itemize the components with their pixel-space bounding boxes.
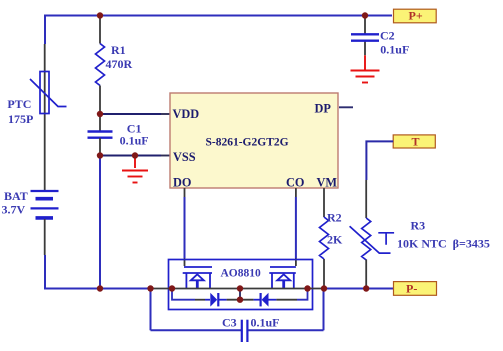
svg-text:0.1uF: 0.1uF [120,134,149,148]
svg-text:VDD: VDD [173,107,200,121]
diode D1 bar [217,293,219,306]
resistor R2 zigzag [320,217,329,259]
battery BAT plate 1 (long) [31,190,59,192]
pin DP stub (dark) [339,106,353,108]
svg-text:0.1uF: 0.1uF [380,43,409,57]
Q2 channel bar [269,272,296,274]
ground symbol at VSS (red) [122,156,148,183]
junction node rail at diode rail left [169,285,175,291]
svg-text:VSS: VSS [173,150,196,164]
capacitor C2 plate 1 [351,33,379,35]
Q2 gate bar [270,266,296,268]
wire C3 loop left riser [150,289,152,331]
capacitor C1 plate 1 [88,130,113,132]
svg-text:AO8810: AO8810 [221,268,262,280]
wire bottom rail middle (dark) [151,288,325,290]
wire VSS net horizontal [100,155,161,157]
wire DO vertical [184,188,186,197]
Q2 drain lead [271,273,273,289]
wire diode rail right corner [297,289,308,300]
resistor R1 bottom pin (dark) [99,86,101,115]
junction node rail center link top [237,285,243,291]
transistor pack AO8810 outline box [169,260,313,310]
Q2 bulk arrow [277,274,290,280]
battery BAT plate 2 (short thick) [36,197,54,201]
Q1 bulk stem [196,280,199,288]
diode D2 bar [260,293,262,306]
wire C3 loop bottom right [248,329,324,331]
Q1 drain lead [209,273,211,289]
junction node VDD [97,111,103,117]
thermistor R3 temperature T mark [378,233,394,245]
resistor R1 top pin (dark) [99,16,101,44]
diode D2 body [262,293,269,307]
capacitor C3 plate 1 [241,320,243,342]
junction node rail at diode rail right [304,285,310,291]
wire diode center link [239,289,241,300]
IC U1 S-8261-G2GT2G body [170,93,338,188]
svg-text:3.7V: 3.7V [2,203,26,217]
svg-text:175P: 175P [8,112,33,126]
Q2 source lead [293,273,295,289]
capacitor C1 bottom lead (dark) [99,138,101,156]
pin VSS stub (dark) [161,155,170,157]
capacitor C2 plate 2 [351,40,379,42]
junction node rail at C3 left [147,285,153,291]
Q1 source lead [185,273,187,289]
wire VSS column down to bottom rail [99,156,101,289]
junction node rail at R3 [363,285,369,291]
svg-text:BAT: BAT [4,189,28,203]
svg-text:R3: R3 [411,219,426,233]
wire C3 loop right riser [323,289,325,331]
Q1 channel bar [183,272,212,274]
svg-text:2K: 2K [327,233,343,247]
Q1 bulk arrow [191,274,204,280]
svg-text:470R: 470R [106,57,133,71]
thermistor R3 top pin (dark) [365,180,367,218]
resistor R2 bottom pin (dark) [323,259,325,289]
battery BAT plate 3 (long) [31,207,59,209]
wire VDD net horizontal [100,113,161,115]
wire diode rail right (dark) [276,299,297,301]
svg-text:R1: R1 [111,43,126,57]
svg-text:PTC: PTC [7,97,31,111]
diode D2 right stub [269,299,277,301]
wire bottom rail right (blue) [324,288,394,290]
Q1 gate bar [184,266,212,268]
junction node rail at VSS column [97,285,103,291]
svg-text:T: T [412,134,420,148]
ground symbol at C2 (red) [351,55,380,82]
svg-text:DP: DP [315,102,332,116]
wire C3 loop bottom left [151,329,242,331]
Q2 bulk stem [282,280,285,288]
svg-text:C3: C3 [222,316,237,330]
wire from T port to NTC column [366,141,393,180]
svg-text:CO: CO [286,176,304,190]
svg-text:C2: C2 [380,29,395,43]
wire VM vertical (dark) [323,188,325,217]
wire left column pin segment (dark) [44,44,46,190]
junction node top rail at R1 [97,12,103,18]
port P+ box [394,9,437,23]
diode D1 body [210,293,217,307]
wire diode rail middle (dark) [227,299,254,301]
port P- box [394,282,437,296]
port T box [393,135,435,148]
junction node rail at R2/C3 right [321,285,327,291]
svg-text:R2: R2 [327,211,342,225]
thermistor R3 zigzag [362,218,371,260]
wire bottom rail left (blue) [44,288,151,290]
wire top rail [45,15,392,17]
wire battery lower pin (dark) [44,219,46,255]
capacitor C2 leads (dark) [364,16,366,56]
thermistor R3 diagonal mark [350,226,391,253]
diode D2 left stub [254,299,260,301]
wire diode rail left corner [172,289,195,300]
capacitor C3 plate 2 [246,320,248,342]
junction node VSS left [97,152,103,158]
svg-text:P+: P+ [409,9,423,23]
transistor Q2 right MOSFET [269,267,296,289]
junction node diode rail center link bottom [237,297,243,303]
resistor R1 zigzag [96,44,105,86]
svg-text:S-8261-G2GT2G: S-8261-G2GT2G [206,137,289,149]
wire diode rail (dark segments) [195,299,205,301]
junction node top rail at C2 [362,12,368,18]
junction node VSS ground tap [132,152,138,158]
svg-text:P-: P- [406,282,417,296]
battery BAT plate 4 (short thick) [36,216,54,220]
capacitor C1 top lead (dark) [99,114,101,131]
transistor Q1 left MOSFET [183,267,212,289]
wire left column upper [44,15,46,45]
wire left column lower [44,255,46,290]
capacitor C1 plate 2 [88,136,113,138]
svg-text:0.1uF: 0.1uF [251,316,280,330]
svg-text:VM: VM [317,176,338,190]
diode D1 left stub [205,299,210,301]
PTC thermistor body [40,72,49,114]
thermistor R3 bottom pin (dark) [365,260,367,289]
diode D1 right stub [219,299,227,301]
svg-text:DO: DO [173,176,191,190]
svg-text:10K NTC β=3435: 10K NTC β=3435 [397,237,490,251]
pin VDD stub (dark) [161,113,170,115]
PTC diagonal mark [30,79,67,107]
wire CO vertical [295,188,297,197]
